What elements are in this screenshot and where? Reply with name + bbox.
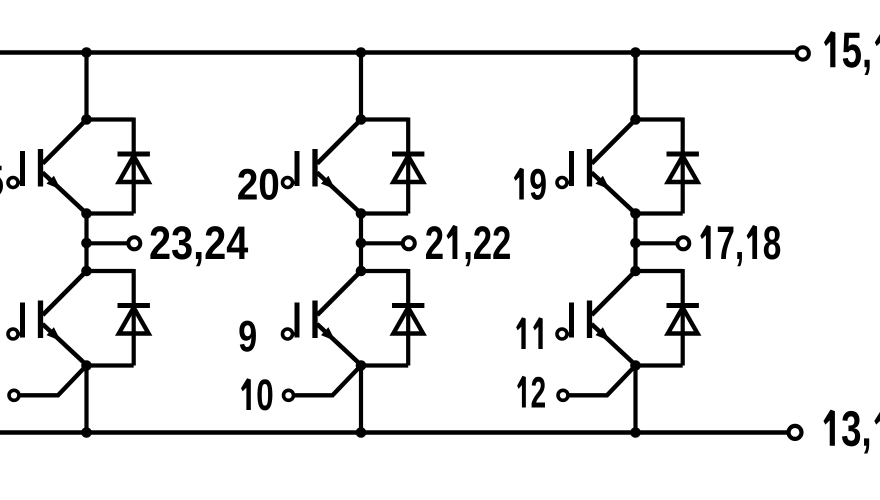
- label 21,22: [426, 225, 510, 266]
- diode D1 (leg 1 top freewheel): [118, 154, 150, 182]
- diode D3 (leg 2 top freewheel): [392, 154, 424, 182]
- igbt Q6 (leg 3 bottom): [557, 271, 636, 365]
- wire leg 2 collector riser from DC+ rail: [359, 53, 363, 120]
- node leg 1 upper emitter junction: [81, 208, 92, 219]
- node leg 2 lower collector junction: [356, 266, 367, 277]
- label 20 (gate, leg 2 top): [238, 169, 278, 200]
- wire emitter to lower collector (through AC midpoint): [633, 214, 637, 272]
- wire lower emitter branch from diode: [87, 363, 134, 367]
- wire emitter to lower collector (through AC midpoint): [84, 214, 88, 272]
- node leg 2 DC+ rail junction: [356, 47, 367, 58]
- node leg 3 lower collector junction: [630, 266, 641, 277]
- node leg 2 upper collector junction: [356, 114, 367, 125]
- wire lower emitter to DC- rail: [359, 366, 363, 433]
- terminal 21,22 (AC output leg 2): [403, 237, 415, 249]
- wire AC midpoint stub: [87, 241, 129, 245]
- node leg 3 upper emitter junction: [630, 208, 641, 219]
- diode D2 (leg 1 bottom freewheel): [118, 306, 150, 334]
- igbt Q3 (leg 2 top): [283, 120, 362, 214]
- wire AC midpoint stub: [636, 241, 678, 245]
- node leg 2 DC- rail junction: [356, 427, 367, 438]
- node leg 2 upper emitter junction: [356, 208, 367, 219]
- label 17,18: [700, 225, 780, 266]
- wire auxiliary emitter lead: [294, 366, 362, 396]
- node leg 1 upper collector junction: [81, 114, 92, 125]
- wire lower emitter branch from diode: [361, 363, 408, 367]
- node leg 3 DC- rail junction: [630, 427, 641, 438]
- diode D5 (leg 3 top freewheel): [667, 154, 699, 182]
- wire lower diode branch vertical: [406, 269, 410, 366]
- wire leg 3 collector riser from DC+ rail: [633, 53, 637, 120]
- wire lower emitter branch from diode: [636, 363, 683, 367]
- node leg 2 lower emitter junction: [356, 360, 367, 371]
- label 9 (gate, leg 2 bottom): [239, 321, 256, 352]
- diode D6 (leg 3 bottom freewheel): [667, 306, 699, 334]
- label 15,16: [824, 31, 880, 75]
- wire lower diode branch vertical: [681, 269, 685, 366]
- label 23,24: [150, 226, 248, 266]
- terminal 17,18 (AC output leg 3): [677, 237, 689, 249]
- diode D4 (leg 2 bottom freewheel): [392, 306, 424, 334]
- wire lower collector branch to diode: [361, 269, 408, 273]
- wire upper emitter branch from diode: [361, 211, 408, 215]
- wire upper collector branch to diode: [361, 117, 408, 121]
- label 10 (aux emitter, leg 2): [241, 378, 272, 410]
- igbt Q2 (leg 1 bottom): [8, 271, 87, 365]
- wire lower collector branch to diode: [87, 269, 134, 273]
- wire lower emitter to DC- rail: [84, 366, 88, 433]
- node leg 3 AC midpoint: [630, 238, 641, 249]
- wire upper emitter branch from diode: [87, 211, 134, 215]
- wire lower emitter to DC- rail: [633, 366, 637, 433]
- igbt Q5 (leg 3 top): [557, 120, 636, 214]
- wire upper diode branch vertical: [132, 118, 136, 214]
- wire DC- rail: [0, 430, 789, 434]
- node leg 1 DC+ rail junction: [81, 47, 92, 58]
- igbt Q1 (leg 1 top): [8, 120, 87, 214]
- terminal 23,24 (AC output leg 1): [128, 237, 140, 249]
- node leg 3 DC+ rail junction: [630, 47, 641, 58]
- wire upper diode branch vertical: [406, 118, 410, 214]
- wire upper emitter branch from diode: [636, 211, 683, 215]
- wire auxiliary emitter lead: [19, 366, 87, 396]
- igbt Q4 (leg 2 bottom): [283, 271, 362, 365]
- node leg 1 lower collector junction: [81, 266, 92, 277]
- node leg 1 AC midpoint: [81, 238, 92, 249]
- wire AC midpoint stub: [361, 241, 403, 245]
- label 11 (gate, leg 3 bottom): [516, 317, 543, 349]
- terminal auxiliary emitter (leg 2 bottom): [284, 390, 294, 400]
- node leg 3 upper collector junction: [630, 114, 641, 125]
- wire leg 1 collector riser from DC+ rail: [84, 53, 88, 120]
- node leg 3 lower emitter junction: [630, 360, 641, 371]
- wire upper collector branch to diode: [636, 117, 683, 121]
- wire auxiliary emitter lead: [568, 366, 636, 396]
- node leg 1 lower emitter junction: [81, 360, 92, 371]
- terminal 13,14 (DC-): [789, 426, 802, 439]
- terminal auxiliary emitter (leg 3 bottom): [558, 390, 568, 400]
- wire DC+ rail: [0, 50, 797, 54]
- wire lower diode branch vertical: [132, 269, 136, 366]
- label 13,14: [823, 410, 880, 454]
- label 12 (aux emitter, leg 3): [517, 376, 545, 408]
- terminal 15,16 (DC+): [797, 47, 809, 59]
- terminal auxiliary emitter (leg 1 bottom): [9, 390, 19, 400]
- node leg 2 AC midpoint: [356, 238, 367, 249]
- label 19 (gate, leg 3 top): [514, 168, 546, 200]
- label 5 (gate, leg 1 top, cut off at edge): [0, 166, 3, 197]
- wire emitter to lower collector (through AC midpoint): [359, 214, 363, 272]
- wire lower collector branch to diode: [636, 269, 683, 273]
- node leg 1 DC- rail junction: [81, 427, 92, 438]
- wire upper collector branch to diode: [87, 117, 134, 121]
- wire upper diode branch vertical: [681, 118, 685, 214]
